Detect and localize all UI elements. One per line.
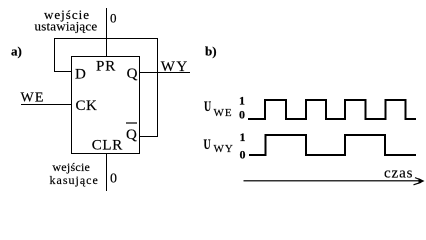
svg-text:U: U xyxy=(204,136,211,153)
wire PR vertical input xyxy=(106,8,107,56)
label U WY xyxy=(204,136,234,155)
waveform U WY xyxy=(249,135,416,155)
svg-text:WE: WE xyxy=(214,107,233,119)
svg-text:0: 0 xyxy=(239,107,245,121)
wire feedback right vertical drop xyxy=(157,38,158,137)
wire feedback left vertical drop xyxy=(54,38,55,72)
svg-text:b): b) xyxy=(205,44,217,59)
svg-text:a): a) xyxy=(11,44,22,59)
svg-text:WY: WY xyxy=(214,143,234,155)
svg-text:PR: PR xyxy=(96,58,116,74)
svg-text:1: 1 xyxy=(240,130,246,144)
svg-text:0: 0 xyxy=(110,10,117,25)
flip-flop body U1 xyxy=(72,57,140,154)
wire feedback top horizontal xyxy=(54,38,158,39)
svg-text:Q: Q xyxy=(126,127,137,143)
wire Q output to WY xyxy=(140,72,190,73)
svg-text:CLR: CLR xyxy=(92,138,123,154)
svg-text:U: U xyxy=(204,98,211,115)
label U WE xyxy=(204,98,233,119)
label wejscie ustawiajace (set input) xyxy=(35,7,98,34)
svg-text:czas: czas xyxy=(384,165,413,181)
pin label Q-bar xyxy=(126,122,137,143)
svg-text:wejście: wejście xyxy=(52,160,90,174)
svg-text:ustawiające: ustawiające xyxy=(35,19,98,34)
svg-text:D: D xyxy=(75,67,86,83)
svg-text:WY: WY xyxy=(161,59,189,75)
label wejscie kasujace (clear input) xyxy=(50,160,99,187)
wire WE input to CK xyxy=(21,104,72,105)
svg-text:WE: WE xyxy=(21,91,45,106)
svg-text:CK: CK xyxy=(76,98,98,114)
svg-text:1: 1 xyxy=(239,93,245,107)
time axis arrow line xyxy=(244,180,421,181)
time axis arrowhead xyxy=(414,178,425,185)
waveform U WE xyxy=(248,100,416,119)
wire D input horizontal xyxy=(54,71,72,72)
svg-text:kasujące: kasujące xyxy=(50,173,99,187)
svg-text:0: 0 xyxy=(240,148,246,162)
wire CLR vertical output xyxy=(106,154,107,191)
svg-text:Q: Q xyxy=(127,66,138,82)
svg-text:0: 0 xyxy=(110,171,117,186)
wire Q-bar output horizontal xyxy=(139,136,158,137)
